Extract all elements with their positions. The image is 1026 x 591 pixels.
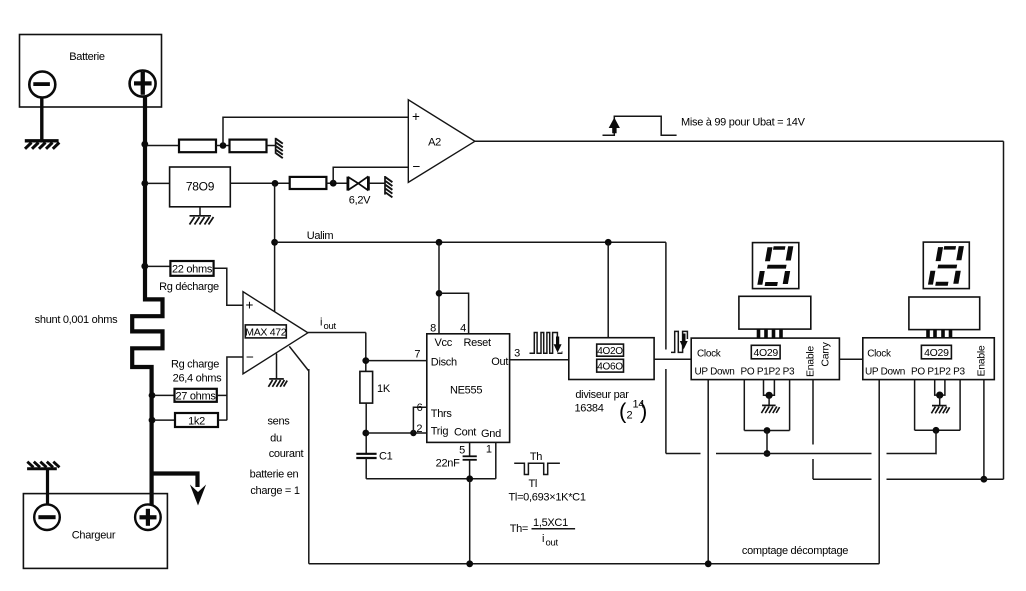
- svg-text:4O6O: 4O6O: [597, 361, 623, 372]
- label 4029 boxed 1: [751, 345, 780, 359]
- wire shunt to 1k2: [154, 419, 175, 421]
- charger minus terminal: [34, 504, 60, 530]
- svg-text:22nF: 22nF: [436, 458, 460, 470]
- wire Ualim drop to divider top: [607, 242, 609, 337]
- svg-text:Trig: Trig: [431, 425, 449, 437]
- ground wall after divider: [276, 138, 283, 158]
- ground battery: [25, 141, 60, 149]
- svg-text:2: 2: [416, 423, 422, 435]
- svg-text:i: i: [542, 533, 544, 545]
- charger box: [23, 494, 167, 569]
- resistor to zener: [290, 177, 327, 189]
- resistor 1k2: [175, 413, 218, 428]
- wire 7809 output: [230, 182, 289, 184]
- svg-text:Enable: Enable: [975, 345, 987, 376]
- wire ground stub 1: [768, 395, 770, 405]
- pins driver1 to 4029: [759, 329, 782, 338]
- label sens du courant: [250, 416, 304, 498]
- svg-text:6,2V: 6,2V: [349, 195, 371, 207]
- svg-text:UP Down: UP Down: [865, 367, 905, 378]
- label 4020 boxed: [597, 344, 624, 357]
- svg-text:1k2: 1k2: [188, 416, 205, 428]
- node Ualim to NE555: [436, 239, 443, 246]
- svg-text:Disch: Disch: [431, 357, 457, 369]
- svg-text:A2: A2: [428, 137, 441, 149]
- wire battery minus stub: [40, 98, 43, 141]
- display 7seg box 1: [753, 243, 799, 289]
- svg-text:charge = 1: charge = 1: [250, 485, 299, 497]
- svg-text:UP Down: UP Down: [695, 367, 735, 378]
- svg-text:comptage décomptage: comptage décomptage: [742, 545, 848, 557]
- node Enable bus 2: [981, 476, 988, 483]
- wire Ualim right drop upper part: [665, 242, 667, 349]
- label 4029 boxed 2: [921, 345, 951, 359]
- node shunt to 1k2: [149, 417, 156, 424]
- wire battery node to 22ohms: [147, 265, 170, 267]
- wire preset bus segment A: [666, 453, 701, 455]
- ground counter 2: [931, 406, 949, 414]
- resistor 1K: [360, 371, 373, 403]
- wire Carry to Clock 2: [839, 358, 862, 360]
- wire P0-P3 tie bar 1: [744, 430, 789, 432]
- svg-text:shunt 0,001 ohms: shunt 0,001 ohms: [35, 314, 118, 326]
- wire divider out to 4029 clock: [654, 358, 691, 360]
- svg-text:1: 1: [486, 444, 492, 456]
- wire battery plus main line + shunt + down to chargeur: [132, 96, 162, 505]
- svg-text:Thrs: Thrs: [431, 408, 453, 420]
- svg-text:Out: Out: [491, 356, 508, 368]
- wire 27ohms/1k2 vertical to MAX472 minus input: [227, 357, 243, 420]
- node P1P2 ground 2: [936, 392, 943, 399]
- ground charger inverted: [27, 462, 59, 469]
- signal Th Tl waveform: [514, 463, 560, 474]
- svg-text:Chargeur: Chargeur: [72, 530, 116, 542]
- svg-text:out: out: [546, 538, 559, 549]
- svg-text:Th: Th: [530, 451, 542, 463]
- wire 27ohms to minus vertical: [217, 394, 227, 396]
- op-amp A2: [408, 100, 475, 183]
- label 2 power 14: [619, 399, 647, 424]
- ground MAX472: [268, 379, 287, 387]
- svg-text:2: 2: [627, 410, 633, 422]
- signal pulse icon Mise a 99: [603, 116, 677, 135]
- node preset bus 1: [764, 450, 771, 457]
- svg-text:−: −: [413, 159, 421, 174]
- wire enable bus segment A: [813, 478, 872, 480]
- wire divider B to wall ground: [267, 145, 276, 147]
- wire P0 pin 2: [914, 380, 916, 431]
- node 555 rail to bottom rail: [466, 475, 473, 482]
- wire zener to wall ground: [368, 182, 384, 184]
- wire Trig pin 2: [366, 432, 427, 434]
- ground 7809: [190, 216, 214, 225]
- wire battery to R divider: [147, 145, 179, 147]
- node divider midpoint: [220, 142, 227, 149]
- IC counter 4029 #2 box: [863, 338, 995, 380]
- wire battery to 7809: [147, 182, 170, 184]
- wire 22ohms to MAX472 plus input: [214, 268, 243, 305]
- wire P3 pin 1: [789, 380, 791, 431]
- wire Gnd pin 1: [495, 442, 497, 478]
- wire P3 pin 2: [959, 380, 961, 431]
- svg-text:Rg charge: Rg charge: [171, 359, 219, 371]
- display driver box 2: [909, 297, 980, 330]
- svg-text:): ): [640, 399, 647, 424]
- arrow current direction: [190, 485, 206, 506]
- signal clock edge icon: [671, 331, 688, 352]
- display digit 2: [928, 246, 965, 286]
- svg-text:4O29: 4O29: [924, 347, 949, 359]
- svg-text:Clock: Clock: [697, 349, 722, 360]
- svg-text:4O2O: 4O2O: [597, 346, 623, 357]
- charger plus terminal: [135, 504, 161, 530]
- signal pulse train icon at 555 out: [530, 333, 563, 354]
- wire UP Down 1 vertical: [707, 380, 709, 564]
- wire shunt to 27ohms: [154, 394, 175, 396]
- node junction battery/7809: [141, 180, 148, 187]
- node tie bar 1: [764, 427, 771, 434]
- wire Ualim right drop lower part to preset bus: [665, 369, 667, 454]
- display driver box 1: [739, 296, 811, 329]
- node shunt to 27ohms: [149, 392, 156, 399]
- svg-text:Batterie: Batterie: [69, 51, 105, 63]
- node Trig/C1: [362, 430, 369, 437]
- wire tie bar 2 drop corner to preset bus: [935, 430, 937, 453]
- svg-text:NE555: NE555: [450, 384, 482, 396]
- svg-text:8: 8: [430, 323, 436, 335]
- wire drop to bottom rail: [469, 479, 471, 564]
- label MAX 472 boxed: [245, 325, 287, 338]
- IC divider 4020/4060 box: [569, 338, 654, 380]
- svg-text:Gnd: Gnd: [481, 428, 501, 440]
- svg-text:−: −: [246, 350, 254, 365]
- svg-text:C1: C1: [379, 451, 393, 463]
- svg-text:4: 4: [460, 323, 466, 335]
- node Thrs bracket: [410, 430, 416, 436]
- wire Cont pin 5 stub: [469, 442, 471, 456]
- wire charger ground stub: [46, 470, 49, 505]
- resistor 27 ohms: [175, 389, 217, 403]
- wire node up to A2 minus input: [333, 167, 408, 183]
- capacitor C1: [356, 454, 376, 458]
- label formula Th fraction: [510, 517, 575, 549]
- battery minus terminal: [29, 72, 55, 98]
- wire Enable pin 1 upper: [812, 380, 814, 445]
- wire resistor to zener: [326, 182, 347, 184]
- svg-text:Ualim: Ualim: [307, 230, 334, 242]
- node junction battery/22ohms: [141, 263, 148, 270]
- wire 555 ground rail: [366, 478, 496, 480]
- wire 1k2 to minus vertical: [218, 419, 227, 421]
- wire Disch pin 7: [366, 360, 427, 362]
- wire 22nF bottom to rail: [469, 460, 471, 479]
- IC NE555 box: [427, 334, 510, 443]
- svg-text:1K: 1K: [377, 383, 391, 395]
- wire enable bus segment B: [887, 478, 1004, 480]
- svg-text:MAX 472: MAX 472: [245, 326, 287, 338]
- node bottom rail updown 1: [705, 560, 712, 567]
- svg-text:+: +: [246, 298, 254, 313]
- wire preset bus segment B: [716, 453, 872, 455]
- wire charge current arrow branch: [152, 474, 198, 488]
- svg-text:batterie en: batterie en: [250, 469, 299, 481]
- wire UP Down 2 vertical: [878, 380, 880, 564]
- display 7seg box 2: [923, 242, 969, 289]
- wire P2 pin 2: [940, 380, 945, 396]
- wire P1 pin 1: [764, 380, 770, 396]
- wire between divider resistors: [216, 145, 230, 147]
- svg-text:Clock: Clock: [867, 349, 892, 360]
- svg-text:du: du: [270, 433, 282, 445]
- svg-text:Rg décharge: Rg décharge: [159, 281, 219, 293]
- svg-text:sens: sens: [267, 416, 290, 428]
- node Ualim corner: [271, 239, 278, 246]
- wire Reset loop to pin 4: [439, 293, 469, 334]
- wire preset bus segment C: [887, 453, 937, 455]
- wire Out pin 3 to divider: [510, 359, 569, 361]
- svg-text:7: 7: [414, 349, 420, 361]
- node bottom rail 555 ground: [466, 560, 473, 567]
- wire bottom updown rail: [309, 563, 879, 565]
- label 4060 boxed: [597, 359, 624, 372]
- svg-text:4O29: 4O29: [753, 347, 778, 359]
- svg-text:PO P1P2 P3: PO P1P2 P3: [911, 367, 965, 378]
- wire tie bar drop to preset bus 1: [766, 431, 768, 454]
- node P1P2 ground 1: [766, 392, 773, 399]
- wire MAX472 out corner down to Disch node: [365, 333, 367, 372]
- IC counter 4029 #1 box: [691, 338, 839, 380]
- wire P0-P3 tie bar 2: [915, 429, 961, 431]
- wire MAX472 ground stub: [276, 354, 278, 379]
- pins driver2 to 4029: [928, 330, 951, 338]
- wire tap vertical down to bottom rail: [308, 369, 310, 564]
- wire Enable pin 1 lower to enable bus: [812, 459, 814, 479]
- node zener / A2 minus: [330, 180, 337, 187]
- svg-text:Tl: Tl: [529, 478, 538, 490]
- svg-text:+: +: [412, 109, 420, 124]
- wire 1K bottom to trig node: [365, 403, 367, 454]
- svg-text:5: 5: [459, 444, 465, 456]
- svg-text:6: 6: [417, 402, 423, 414]
- wire tap from MAX472 lower edge diagonal: [289, 346, 309, 371]
- svg-text:Mise à 99 pour Ubat = 14V: Mise à 99 pour Ubat = 14V: [681, 116, 806, 128]
- op-amp U2 MAX472 triangle: [243, 292, 308, 374]
- node junction battery/R divider: [141, 141, 148, 148]
- svg-text:out: out: [324, 321, 337, 332]
- wire Ualim horizontal rail: [275, 241, 666, 243]
- wire C1 bottom to 555 rail: [365, 458, 367, 479]
- node 7809 output / Ualim: [272, 180, 279, 187]
- resistor R divider B: [230, 140, 267, 153]
- resistor Rg decharge 22 ohms: [170, 261, 213, 276]
- node Ualim to divider: [605, 239, 612, 246]
- resistor R divider A: [179, 140, 216, 153]
- wire P1 pin 2: [935, 380, 940, 396]
- battery plus terminal: [130, 71, 156, 97]
- ground counter 1: [761, 405, 779, 413]
- wire P2 pin 1: [769, 380, 774, 396]
- svg-text:78O9: 78O9: [186, 180, 215, 194]
- svg-text:27 ohms: 27 ohms: [175, 391, 216, 403]
- capacitor 22nF: [463, 456, 477, 460]
- regulator 7809: [170, 167, 231, 207]
- wire MAX472 output iout: [308, 332, 366, 334]
- zener diode 6.2V: [348, 176, 369, 190]
- ground wall after zener: [385, 176, 392, 197]
- wire 7809 ground stub: [199, 207, 201, 216]
- node Disch: [362, 357, 369, 364]
- wire P0 pin 1: [743, 380, 745, 431]
- svg-text:courant: courant: [269, 448, 304, 460]
- svg-text:PO P1P2 P3: PO P1P2 P3: [741, 367, 795, 378]
- svg-text:Th=: Th=: [510, 523, 528, 535]
- svg-text:16384: 16384: [574, 402, 603, 414]
- svg-text:Reset: Reset: [464, 337, 491, 349]
- wire Ualim vertical from 7809 node down to MAX472 top: [274, 183, 276, 311]
- svg-text:Enable: Enable: [805, 346, 817, 377]
- svg-text:Cont: Cont: [454, 427, 476, 439]
- wire A2 output to right edge: [475, 140, 1004, 142]
- label iout: [320, 317, 336, 333]
- svg-text:3: 3: [514, 348, 520, 360]
- display digit 1: [757, 246, 794, 286]
- svg-text:22 ohms: 22 ohms: [172, 264, 213, 276]
- svg-text:Carry: Carry: [820, 341, 832, 366]
- svg-text:Tl=0,693×1K*C1: Tl=0,693×1K*C1: [509, 492, 586, 504]
- wire Thrs bracket to pin 6: [413, 407, 426, 433]
- svg-text:1,5XC1: 1,5XC1: [533, 517, 568, 529]
- node tie bar 2: [933, 427, 940, 434]
- wire divider midpoint up to A2 plus input: [223, 117, 408, 145]
- svg-text:i: i: [320, 317, 322, 329]
- wire ground stub 2: [939, 395, 941, 405]
- svg-text:Vcc: Vcc: [435, 337, 453, 349]
- svg-text:26,4 ohms: 26,4 ohms: [173, 373, 222, 385]
- wire Ualim drop to NE555 Vcc pin 8: [438, 242, 440, 333]
- battery B1 box: [20, 35, 162, 108]
- wire right edge down: [1003, 141, 1005, 479]
- wire Enable pin 2: [983, 380, 985, 480]
- node Vcc Reset tie: [436, 290, 443, 297]
